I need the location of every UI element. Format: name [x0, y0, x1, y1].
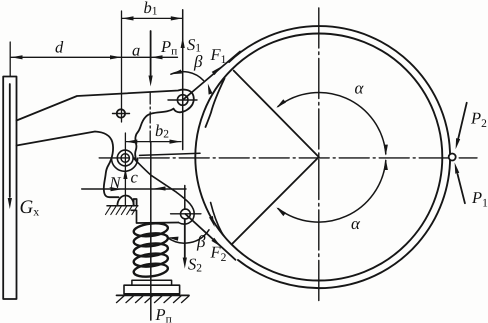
- svg-text:β: β: [196, 232, 206, 251]
- drum horizontal centerline: [99, 157, 477, 159]
- svg-text:P2: P2: [470, 109, 487, 131]
- svg-text:d: d: [55, 38, 64, 57]
- svg-text:F2: F2: [210, 243, 227, 265]
- dimension line d and a: [11, 56, 178, 58]
- force F1 arrow line: [183, 52, 240, 101]
- svg-text:Pп: Pп: [160, 37, 177, 58]
- svg-text:b1: b1: [144, 0, 158, 18]
- N force line: [82, 188, 186, 190]
- F2 arrowhead: [211, 238, 221, 247]
- spring: [133, 222, 169, 279]
- dimension line b1: [122, 17, 183, 19]
- d right arrowhead: [110, 55, 122, 59]
- pivot O1 circle with crosshair: [117, 109, 125, 117]
- lever fork cradle under pin B: [112, 158, 138, 171]
- vertical line through pin B (b2 ext / c arrow shaft): [124, 133, 126, 206]
- angle beta arc top: [171, 72, 204, 81]
- node: small circle at drum right: [449, 154, 456, 161]
- fulcrum ground line: [107, 205, 138, 207]
- upper pin A: [177, 95, 188, 106]
- shoe upper edge: [206, 79, 225, 128]
- b1 left arrowhead: [122, 16, 134, 20]
- angle beta arc bottom: [167, 230, 209, 243]
- d extension line: [9, 42, 11, 76]
- c dimension arrowhead (up): [123, 168, 127, 179]
- dimension line b2: [126, 141, 181, 143]
- lower beam bracket: [131, 210, 178, 223]
- svg-text:N: N: [109, 173, 122, 192]
- lower pin C: [181, 209, 191, 219]
- diagonal rod to lower pin with boss hook: [134, 159, 194, 225]
- alpha arc bottom right arrowhead: [384, 159, 388, 170]
- spring axis dash-dot centerline: [149, 93, 151, 142]
- N arrowhead (right): [111, 187, 123, 191]
- alpha arc top right arrowhead: [384, 145, 388, 156]
- Pn lower line through spring: [150, 142, 152, 320]
- force F2 arrow line: [185, 214, 235, 260]
- F1 arrowhead: [212, 66, 222, 75]
- svg-text:F1: F1: [210, 45, 227, 66]
- drum rotation arrowhead upper: [208, 84, 213, 95]
- arm left snake edge: [135, 109, 173, 162]
- svg-text:α: α: [355, 79, 365, 98]
- ground hatching bottom: [117, 296, 190, 303]
- b1 right arrowhead: [171, 16, 183, 20]
- left arrowhead on N line: [154, 186, 165, 190]
- drum inner circle: [195, 34, 442, 281]
- drum outer circle: [229, 26, 450, 288]
- fulcrum nub: [134, 199, 137, 206]
- radial line upper-left: [234, 71, 319, 157]
- spring base top plate: [132, 280, 172, 285]
- fulcrum hatching: [106, 206, 138, 215]
- svg-text:Gx: Gx: [20, 197, 40, 219]
- a right arrowhead (pointing left): [151, 55, 163, 59]
- vertical extension line x=121.5 (b1 left / pivot axis): [121, 11, 123, 122]
- horizontal link line: [140, 153, 201, 155]
- svg-text:Pп: Pп: [155, 305, 172, 323]
- lever bottom edge and support foot: [17, 132, 119, 198]
- alpha arc top left arrowhead: [276, 99, 286, 108]
- d left arrowhead: [11, 55, 23, 59]
- svg-text:β: β: [193, 52, 203, 71]
- vertical line x=182.7 (S1 line / b1 right ext / brace): [183, 10, 185, 210]
- radial line lower-left: [232, 157, 319, 244]
- force P2 arrow: [458, 103, 467, 141]
- force Gx arrow: [9, 84, 11, 197]
- svg-text:a: a: [132, 41, 140, 60]
- lower-left pin B with boss: [121, 154, 129, 162]
- alpha arc bottom left arrowhead: [276, 207, 286, 216]
- svg-text:P1: P1: [471, 188, 488, 210]
- lever top edge with boss hook around upper pin: [17, 90, 194, 121]
- force S1 arrowhead (up): [181, 37, 185, 48]
- force S2 arrow (down): [184, 220, 186, 258]
- fulcrum dome: [117, 196, 133, 206]
- force P1 arrow: [458, 174, 465, 203]
- svg-text:c: c: [131, 168, 139, 187]
- angle alpha arc top: [278, 92, 386, 154]
- drum vertical centerline: [318, 8, 320, 302]
- lower shoe edge with friction arrowhead: [211, 203, 225, 237]
- spring base plate: [124, 285, 180, 294]
- angle alpha arc bottom: [278, 161, 386, 223]
- left bar (magnet armature rod): [3, 77, 16, 300]
- svg-text:α: α: [351, 214, 361, 233]
- force Pn arrow (down): [150, 31, 152, 75]
- ground line bottom: [117, 294, 190, 296]
- svg-text:b2: b2: [155, 121, 169, 141]
- svg-text:S2: S2: [188, 255, 202, 275]
